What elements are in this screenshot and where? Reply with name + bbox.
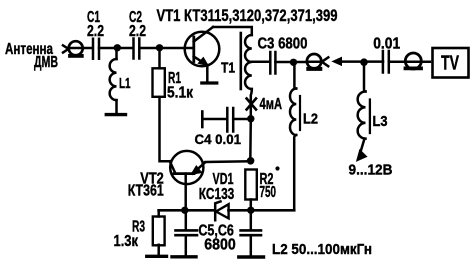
wire to connector XW3: [389, 61, 430, 64]
wire T1 tap to C3: [252, 61, 270, 64]
label L2 inductance note: [272, 241, 372, 258]
coax connector XW1 (antenna): [69, 41, 91, 56]
label T1: [221, 61, 235, 77]
svg-text:1.3к: 1.3к: [114, 233, 139, 250]
label C4 0.01: [195, 131, 242, 147]
svg-text:2.2: 2.2: [87, 23, 104, 40]
capacitor C4: [202, 108, 251, 132]
label R3 1.3к: [114, 218, 146, 250]
wire R3 top lead: [157, 210, 160, 216]
svg-text:9...12В: 9...12В: [349, 162, 393, 179]
ground under C5: [172, 255, 196, 258]
label L2: [303, 110, 318, 127]
label C5 C6 6800: [198, 222, 235, 253]
node L2 junction: [290, 59, 297, 66]
ground under L1: [106, 113, 125, 116]
transformer T1 winding: [245, 35, 252, 89]
current marker 4mA: [247, 99, 256, 110]
capacitor C6: [241, 210, 261, 255]
socket arrow (cable to TV): [333, 57, 365, 65]
bottom wire: [159, 209, 295, 212]
inductor L1: [110, 48, 117, 113]
capacitor 0.01: [383, 51, 389, 73]
label C2 2.2: [129, 9, 146, 40]
transformer T1 core: [240, 33, 243, 89]
svg-text:VT1 КТ3115,3120,372,371,399: VT1 КТ3115,3120,372,371,399: [157, 7, 338, 25]
wire C1 to C2: [99, 47, 133, 50]
label C1 2.2: [87, 9, 104, 40]
label 9...12В: [349, 162, 393, 179]
label 0.01: [373, 36, 400, 53]
wire C3 to connector: [275, 61, 308, 64]
svg-text:L1: L1: [119, 75, 131, 92]
node C4 junction: [247, 115, 254, 122]
wire T1 bottom to rail: [251, 89, 252, 119]
node VT2 emitter / R2 junction: [247, 157, 255, 165]
label VT2: [128, 170, 164, 199]
wire VT1 collector to T1: [213, 27, 252, 35]
label VD1 КС133: [199, 171, 235, 203]
inductor L2: [290, 63, 296, 210]
label Антенна ДМВ: [5, 41, 58, 71]
svg-text:ДМВ: ДМВ: [34, 54, 58, 71]
capacitor C2: [134, 39, 140, 59]
ground under R3: [147, 255, 167, 258]
svg-text:6800: 6800: [204, 236, 236, 253]
resistor R2: [245, 170, 256, 211]
node R2 bottom / C6 junction: [247, 207, 254, 214]
wire R1 bottom to VT2 collector: [160, 97, 172, 161]
svg-text:750: 750: [260, 184, 277, 201]
inductor L3 core: [369, 100, 371, 134]
capacitor C5: [176, 210, 198, 255]
ground under VT1 emitter: [202, 81, 217, 84]
TV box: [433, 48, 469, 78]
resistor R3: [153, 217, 165, 255]
label TV: [441, 53, 459, 75]
svg-text:T1: T1: [221, 61, 235, 77]
svg-text:КС133: КС133: [199, 186, 235, 203]
svg-text:C4 0.01: C4 0.01: [195, 131, 242, 147]
svg-text:L2: L2: [303, 110, 318, 127]
svg-text:C3 6800: C3 6800: [258, 36, 308, 53]
svg-text:L3: L3: [373, 113, 388, 130]
inductor L3: [358, 62, 366, 152]
node L3 junction: [360, 58, 368, 66]
label R2 750: [260, 166, 280, 201]
label 4мА: [260, 96, 283, 113]
zener diode VD1: [215, 202, 228, 221]
label C3 6800: [258, 36, 308, 53]
transistor VT1: [185, 27, 220, 82]
svg-text:L2 50...100мкГн: L2 50...100мкГн: [272, 241, 372, 258]
coax connector XW2 (amp output plug): [307, 54, 328, 69]
node L1 junction: [114, 44, 121, 51]
svg-text:2.2: 2.2: [129, 23, 146, 40]
wire C2 to VT1 base: [139, 47, 193, 50]
supply rail T1 bottom to R2: [249, 119, 252, 162]
label L1: [119, 75, 131, 92]
wire to 0.01 cap: [364, 60, 383, 63]
node R1 junction: [156, 44, 163, 51]
transistor VT2: [170, 151, 205, 210]
svg-text:4мА: 4мА: [260, 96, 283, 113]
ground under C6: [239, 255, 264, 258]
supply input arrow: [357, 150, 367, 161]
capacitor C3: [270, 52, 275, 74]
label L3: [373, 113, 388, 130]
antenna input plug arrow: [63, 45, 69, 52]
coax connector XW3 (TV input): [405, 53, 421, 69]
svg-text:0.01: 0.01: [373, 36, 400, 53]
svg-text:5.1к: 5.1к: [167, 84, 194, 101]
resistor R1: [153, 68, 165, 97]
label R1 5.1к: [167, 70, 194, 101]
svg-text:КТ361: КТ361: [128, 182, 164, 199]
node VT2 base / C5 junction: [181, 207, 188, 214]
inductor L2 core: [299, 96, 301, 130]
label VT1 types: [157, 7, 338, 25]
capacitor C1: [93, 39, 99, 59]
wire VT2 emitter to rail: [203, 161, 250, 163]
wire R1 top lead: [158, 48, 161, 68]
svg-text:TV: TV: [441, 53, 459, 75]
